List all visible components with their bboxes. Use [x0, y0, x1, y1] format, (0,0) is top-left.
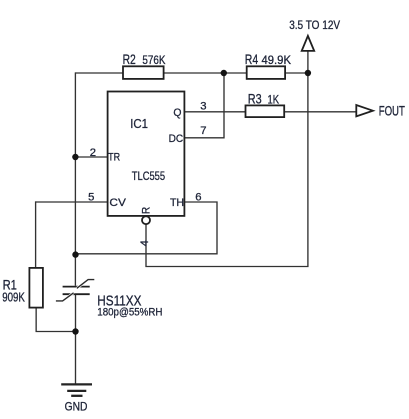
svg-text:7: 7 [200, 125, 206, 137]
junction dot sensor top node [72, 251, 78, 257]
svg-text:TH: TH [170, 197, 184, 209]
svg-text:DC: DC [169, 133, 184, 145]
sensor HS11XX bottom plate [63, 293, 90, 295]
svg-text:IC1: IC1 [130, 116, 148, 131]
svg-text:R: R [140, 207, 152, 215]
junction dot R2 R4 DC node [221, 70, 227, 76]
svg-text:909K: 909K [2, 290, 25, 305]
wire Q pin 3 to R3 [184, 111, 245, 113]
wire top rail right segment [285, 72, 308, 74]
IC body IC1 TLC555 [108, 92, 185, 216]
svg-text:3: 3 [200, 101, 206, 113]
svg-text:2: 2 [90, 147, 96, 159]
wire sensor bottom to ground [75, 294, 77, 384]
svg-text:R3: R3 [248, 91, 262, 107]
wire left vertical bus [74, 72, 76, 285]
svg-text:R2: R2 [123, 51, 136, 67]
wire CV drop to R1 [35, 201, 37, 268]
wire DC pin 7 up to rail [184, 73, 224, 138]
svg-text:TLC555: TLC555 [132, 169, 166, 183]
power supply arrow symbol 3.5 TO 12V [302, 36, 315, 51]
sensor variable stroke bottom [56, 293, 74, 301]
wire top rail middle segment [164, 72, 247, 74]
svg-text:6: 6 [195, 191, 201, 203]
ground bar 2 [67, 390, 86, 392]
wire TH pin 6 loop [76, 202, 218, 254]
wire R1 bottom lead [36, 308, 75, 332]
ground bar 3 [71, 395, 82, 397]
wire R pin 4 to supply [146, 51, 308, 267]
svg-text:3.5 TO 12V: 3.5 TO 12V [289, 20, 340, 32]
FOUT output triangle [356, 105, 373, 116]
svg-text:GND: GND [65, 400, 88, 414]
svg-text:49.9K: 49.9K [262, 53, 292, 67]
junction dot supply node [305, 70, 311, 76]
svg-text:FOUT: FOUT [379, 104, 405, 119]
svg-text:CV: CV [109, 197, 126, 209]
sensor variable stroke top [77, 280, 95, 289]
svg-text:576K: 576K [142, 53, 165, 67]
resistor R1 body [29, 268, 43, 308]
svg-text:1K: 1K [268, 93, 280, 107]
reset pin inversion bubble [142, 216, 150, 224]
wire CV pin 5 horizontal [36, 201, 108, 203]
svg-text:4: 4 [139, 240, 151, 246]
wire TR pin 2 stub [75, 156, 107, 158]
ground bar 1 [61, 383, 92, 385]
resistor R4 body [247, 66, 285, 79]
sensor HS11XX top plate [63, 286, 90, 288]
junction dot TR [72, 154, 78, 160]
svg-text:180p@55%RH: 180p@55%RH [97, 307, 162, 319]
svg-text:5: 5 [88, 192, 94, 204]
junction dot sensor bottom node [72, 328, 78, 334]
svg-text:R4: R4 [245, 51, 259, 67]
wire R3 to FOUT [284, 111, 356, 113]
svg-text:Q: Q [173, 107, 181, 119]
wire top rail left segment [75, 72, 123, 74]
resistor R3 body [246, 105, 285, 117]
resistor R2 body [123, 66, 164, 79]
svg-text:TR: TR [108, 152, 120, 164]
